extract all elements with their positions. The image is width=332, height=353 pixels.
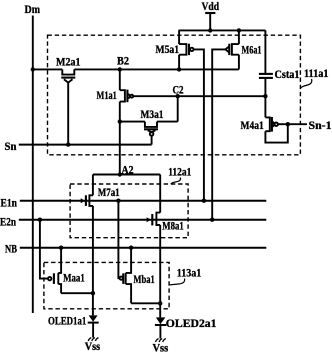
svg-text:M3a1: M3a1	[141, 109, 164, 121]
wire OLED1a1 cathode to Vss	[92, 323, 94, 338]
junction Maa1 gate feed on E2n	[38, 218, 42, 222]
junction M6a1 gate line on E2n	[210, 218, 214, 222]
svg-text:Sn-1: Sn-1	[309, 120, 332, 132]
transistor M4a1	[265, 117, 278, 132]
svg-text:Mba1: Mba1	[133, 274, 155, 286]
wire NB row	[20, 247, 266, 249]
svg-text:M1a1: M1a1	[97, 90, 117, 102]
svg-text:M6a1: M6a1	[242, 44, 262, 56]
svg-text:M5a1: M5a1	[156, 44, 180, 56]
svg-text:M8a1: M8a1	[162, 220, 184, 232]
svg-text:Vss: Vss	[153, 343, 169, 353]
junction M5a1 gate line on E1n	[202, 199, 206, 203]
svg-text:Sn: Sn	[5, 141, 18, 153]
wire M4a1 gate to Sn-1	[278, 123, 307, 125]
svg-text:111a1: 111a1	[304, 68, 329, 80]
svg-text:112a1: 112a1	[168, 167, 191, 179]
svg-text:Vss: Vss	[85, 341, 101, 353]
junction Vdd on top wire	[208, 28, 212, 32]
wire Mba1 source to OLED2 line	[131, 302, 160, 304]
svg-text:113a1: 113a1	[177, 268, 202, 280]
transistor Mba1	[120, 248, 132, 304]
svg-text:E2n: E2n	[0, 217, 16, 229]
wire M5a1 gate to E1n	[194, 49, 204, 200]
wire Sn scan line	[19, 144, 152, 146]
wire Maa1 gate feed from E2n	[40, 220, 48, 279]
pointer squiggle 112a1	[171, 178, 181, 185]
transistor M7a1	[81, 175, 93, 206]
wire E1n row	[20, 200, 266, 202]
transistor M6a1	[225, 30, 239, 69]
boundary 111a1 dashed box	[48, 35, 301, 155]
wire E2n row	[19, 219, 266, 221]
junction Maa1 source on OLED1 line	[91, 291, 95, 295]
ground Vss left symbol	[88, 338, 98, 341]
junction Maa1 drain on NB	[59, 246, 63, 250]
wire C2 down to M3a1 row	[177, 96, 179, 121]
transistor M3a1	[144, 122, 158, 136]
junction M4a1 gate-source	[286, 122, 290, 126]
wire Csta1 bottom to C2	[264, 79, 266, 118]
wire Dm vertical data line	[32, 16, 34, 314]
wire top rail M5a1-M6a1	[179, 29, 266, 31]
junction A2	[118, 172, 122, 176]
diode OLED2a1	[155, 317, 166, 325]
svg-text:B2: B2	[117, 56, 129, 68]
junction Csta1-C2	[263, 94, 267, 98]
wire M3a1 row horizontal	[120, 121, 178, 123]
junction Mba1 source on OLED2 line	[158, 301, 162, 305]
junction Mba1 gate feed on E1n	[116, 199, 120, 203]
svg-text:Vdd: Vdd	[202, 0, 220, 13]
svg-text:E1n: E1n	[1, 198, 18, 210]
boundary 112a1 dashed box	[70, 184, 188, 238]
wire C2 horizontal M1a1 gate to Csta1	[133, 95, 265, 97]
boundary 113a1 dashed box	[44, 262, 169, 308]
svg-text:M4a1: M4a1	[241, 120, 265, 132]
transistor M1a1	[120, 90, 133, 103]
wire B2 vertical to M1a1	[119, 69, 121, 90]
wire M4a1 source loop to gate	[265, 124, 287, 142]
svg-text:Maa1: Maa1	[63, 273, 85, 285]
wire top rail right end down to Csta1	[264, 30, 266, 73]
junction C2 node	[176, 94, 180, 98]
junction Dm-to-M2a1 wire	[31, 67, 35, 71]
svg-text:Csta1: Csta1	[275, 69, 300, 81]
capacitor Csta1	[259, 74, 273, 78]
wire M2a1 gate to Sn	[67, 82, 69, 144]
transistor Maa1	[48, 248, 61, 294]
transistor M5a1	[179, 30, 193, 69]
pointer squiggle 113a1	[170, 279, 185, 285]
wire A2 row	[93, 174, 160, 176]
junction M2a1 gate on Sn	[66, 142, 70, 146]
ground Vss right symbol	[156, 339, 166, 342]
svg-text:Dm: Dm	[25, 2, 41, 16]
wire Mba1 gate feed from E1n	[118, 201, 119, 279]
svg-text:OLED2a1: OLED2a1	[166, 318, 217, 330]
svg-text:NB: NB	[5, 244, 17, 256]
junction M6a1 drain on top wire	[237, 28, 241, 32]
junction M3a1 branch on A2 vertical	[118, 119, 122, 123]
wire M8a1 drain down to OLED2	[159, 225, 161, 317]
wire M7a1 drain down to OLED1	[92, 206, 94, 316]
junction Mba1 drain on NB	[129, 246, 133, 250]
junction M5a1 source on main row	[177, 67, 181, 71]
wire M6a1 gate to E2n	[212, 49, 225, 219]
junction B2	[118, 67, 122, 71]
wire Maa1 source to OLED1 line	[61, 292, 93, 294]
transistor M8a1	[147, 175, 161, 226]
wire M3a1 gate to Sn end	[151, 136, 153, 145]
transistor M2a1	[61, 69, 75, 82]
wire OLED2a1 cathode to Vss	[159, 325, 161, 339]
svg-text:OLED1a1: OLED1a1	[48, 315, 86, 327]
wire main horizontal Dm-B2 row	[33, 68, 239, 70]
pointer squiggle 111a1	[301, 79, 312, 88]
power Vdd rail symbol	[205, 13, 215, 30]
wire A2 vertical M1a1 to A2 row	[119, 102, 121, 175]
svg-text:M7a1: M7a1	[98, 187, 120, 199]
svg-text:M2a1: M2a1	[56, 56, 81, 68]
diode OLED1a1	[88, 315, 99, 322]
